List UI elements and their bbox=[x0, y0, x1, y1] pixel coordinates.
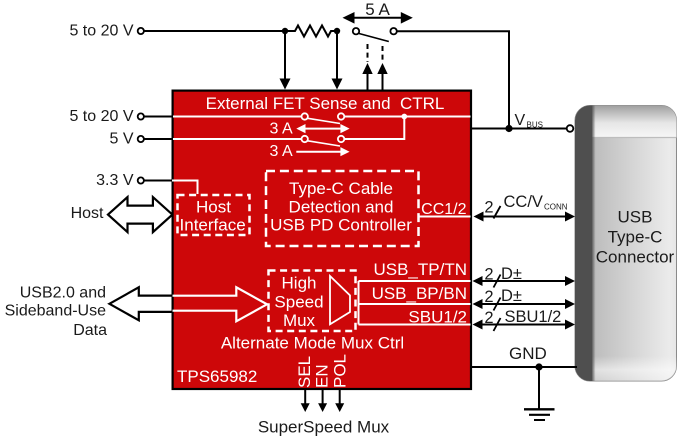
current arrow 3 A (1) double bbox=[296, 124, 349, 133]
EN output arrow bbox=[318, 390, 327, 413]
svg-text:5 to 20 V: 5 to 20 V bbox=[69, 23, 133, 40]
wire SW1 to VBUS node bbox=[397, 31, 509, 128]
svg-text:2: 2 bbox=[484, 309, 493, 327]
Type-C Cable Detection box bbox=[266, 171, 419, 246]
svg-text:TPS65982: TPS65982 bbox=[177, 367, 257, 386]
ground symbol bbox=[524, 367, 555, 420]
SW1 control line a (dashed, from block) bbox=[362, 44, 372, 90]
CC internal wire bbox=[419, 216, 471, 218]
svg-text:External FET Sense and CTRL: External FET Sense and CTRL bbox=[206, 94, 445, 113]
3.3V internal wire bbox=[172, 181, 198, 195]
connector label USB Type-C Connector bbox=[596, 207, 675, 266]
svg-text:Connector: Connector bbox=[596, 247, 675, 266]
svg-text:Host: Host bbox=[196, 197, 231, 216]
svg-text:SuperSpeed Mux: SuperSpeed Mux bbox=[258, 418, 390, 436]
switch SW3 (3A) bbox=[302, 136, 345, 146]
svg-text:SEL: SEL bbox=[295, 356, 314, 388]
TPS65982 block bbox=[173, 91, 471, 389]
Host bidirectional arrow bbox=[108, 197, 172, 232]
junction J1 bbox=[282, 28, 288, 34]
svg-text:Type-C Cable: Type-C Cable bbox=[289, 179, 393, 198]
svg-text:Type-C: Type-C bbox=[608, 227, 663, 246]
svg-text:USB: USB bbox=[618, 207, 653, 226]
CC external bus arrow bbox=[474, 206, 576, 222]
svg-text:3 A: 3 A bbox=[270, 143, 293, 160]
svg-text:2: 2 bbox=[484, 266, 493, 284]
USB2.0 arrow (left, out of block) bbox=[109, 287, 173, 320]
svg-text:USB PD Controller: USB PD Controller bbox=[270, 216, 412, 235]
svg-text:CC1/2: CC1/2 bbox=[421, 201, 466, 218]
VBUS junction dot bbox=[505, 125, 512, 132]
USB2.0 arrow (right, into mux) bbox=[173, 287, 268, 321]
svg-text:2: 2 bbox=[484, 288, 493, 306]
terminal 5 V (rail 2) bbox=[109, 131, 172, 148]
svg-text:3 A: 3 A bbox=[270, 121, 293, 138]
svg-text:5 to 20 V: 5 to 20 V bbox=[69, 108, 133, 125]
USB Type-C connector shell bbox=[575, 106, 677, 382]
High Speed Mux box bbox=[269, 271, 356, 332]
svg-text:Speed: Speed bbox=[274, 292, 323, 311]
svg-text:GND: GND bbox=[509, 344, 547, 363]
wire J2 drop into block bbox=[332, 31, 343, 90]
svg-text:Data: Data bbox=[73, 322, 107, 339]
junction rail2->rail1 bbox=[401, 114, 407, 120]
svg-text:D±: D± bbox=[501, 287, 522, 305]
svg-text:Mux: Mux bbox=[283, 311, 316, 330]
current arrow 3 A (2) single bbox=[296, 147, 349, 156]
svg-text:SBU1/2: SBU1/2 bbox=[505, 308, 562, 326]
rail1 internal (5-20V) bbox=[173, 116, 471, 118]
svg-text:Detection and: Detection and bbox=[289, 197, 394, 216]
mux output bus bbox=[359, 281, 471, 325]
svg-text:High: High bbox=[282, 274, 317, 293]
svg-text:3.3 V: 3.3 V bbox=[96, 172, 134, 189]
svg-text:USB_TP/TN: USB_TP/TN bbox=[373, 260, 467, 279]
label CC/VCONN bbox=[504, 193, 568, 211]
svg-text:V: V bbox=[515, 112, 526, 129]
terminal 5 to 20 V (top) bbox=[69, 23, 143, 40]
terminal 3.3 V bbox=[96, 172, 172, 189]
svg-text:D±: D± bbox=[501, 265, 522, 283]
GND wire bbox=[472, 366, 578, 368]
svg-text:SBU1/2: SBU1/2 bbox=[408, 307, 467, 326]
wire top rail bbox=[144, 30, 285, 32]
svg-text:Sideband-Use: Sideband-Use bbox=[5, 303, 107, 320]
svg-text:POL: POL bbox=[331, 354, 350, 388]
terminal 5 to 20 V (rail 1) bbox=[69, 108, 172, 125]
svg-text:5 V: 5 V bbox=[109, 131, 133, 148]
mux trapezoid bbox=[330, 276, 350, 324]
VBUS terminal circle bbox=[567, 125, 574, 132]
current arrow 5 A bbox=[343, 12, 413, 24]
svg-text:Interface: Interface bbox=[180, 215, 246, 234]
junction J2 bbox=[334, 28, 340, 34]
SW1 control line b (dashed, from block) bbox=[377, 46, 387, 90]
svg-text:EN: EN bbox=[313, 364, 332, 388]
svg-text:Host: Host bbox=[71, 205, 104, 222]
POL output arrow bbox=[335, 390, 344, 413]
svg-text:CONN: CONN bbox=[544, 202, 568, 211]
wire VBUS to connector bbox=[472, 128, 567, 130]
svg-text:Alternate Mode Mux Ctrl: Alternate Mode Mux Ctrl bbox=[221, 334, 404, 353]
SBU bus arrow bbox=[473, 318, 576, 331]
svg-text:CC/V: CC/V bbox=[504, 193, 543, 211]
wire J1 drop into block bbox=[280, 31, 291, 90]
rail2 internal (5V) bbox=[173, 117, 404, 140]
svg-text:2: 2 bbox=[484, 199, 493, 217]
svg-text:5 A: 5 A bbox=[365, 0, 390, 19]
switch SW2 (3A) bbox=[302, 113, 345, 123]
svg-text:USB2.0 and: USB2.0 and bbox=[20, 285, 106, 302]
D+- bus arrow 2 bbox=[473, 298, 576, 311]
resistor R sense bbox=[285, 26, 337, 37]
switch SW1 (5A FET) bbox=[353, 28, 397, 42]
D+- bus arrow 1 bbox=[473, 275, 576, 288]
svg-text:USB_BP/BN: USB_BP/BN bbox=[372, 284, 467, 303]
label USB2.0 and Sideband-Use Data bbox=[5, 285, 108, 340]
Host Interface box bbox=[178, 195, 250, 235]
GND junction bbox=[535, 363, 542, 370]
label VBUS bbox=[515, 112, 543, 130]
SEL output arrow bbox=[301, 390, 310, 413]
